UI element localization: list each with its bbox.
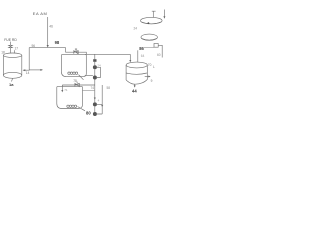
wire xyxy=(94,106,96,112)
leader T2 coil xyxy=(79,75,84,80)
node arrowhead stub xyxy=(40,69,43,71)
svg-text:FUE RD: FUE RD xyxy=(4,38,17,42)
dish D2 xyxy=(141,34,157,40)
svg-text:80: 80 xyxy=(86,111,91,116)
wire top feed vertical xyxy=(47,17,49,45)
node arrowhead into vessel T4 xyxy=(61,90,63,92)
svg-text:46: 46 xyxy=(49,24,53,28)
valve V3 xyxy=(75,82,79,87)
node arrowhead right outlet xyxy=(148,76,150,78)
pump chain vertical xyxy=(94,54,96,59)
pump P1 xyxy=(93,65,97,69)
svg-text:9: 9 xyxy=(151,79,153,83)
tank T1 left xyxy=(3,53,21,57)
wire riser from tank T1 xyxy=(23,48,29,71)
stem on D1 xyxy=(152,11,156,17)
bypass loop lower xyxy=(97,85,102,114)
wire T3 bottom outlet xyxy=(134,84,136,85)
wire xyxy=(94,62,96,66)
svg-text:78: 78 xyxy=(73,79,77,83)
svg-text:86: 86 xyxy=(139,46,144,51)
svg-text:71: 71 xyxy=(64,88,68,92)
wire stub arrow toward vessel T2 xyxy=(29,69,40,71)
node arrowhead into vessel T3 xyxy=(129,60,131,62)
vessel T2 center xyxy=(61,54,86,76)
svg-text:14: 14 xyxy=(26,71,30,75)
wire chain lower xyxy=(94,85,96,102)
component square S2 xyxy=(154,44,158,48)
wire inlet 2 into T3 xyxy=(137,50,139,62)
svg-text:58: 58 xyxy=(107,86,111,90)
vessel T4 bottom xyxy=(57,86,83,108)
node dot on D1 xyxy=(148,22,150,24)
label 16 under T1 xyxy=(12,78,13,81)
dish D1 top right xyxy=(141,17,163,24)
wire long horizontal to right vessel xyxy=(85,53,130,55)
bypass loop middle xyxy=(97,67,101,77)
node arrowhead on chain xyxy=(94,98,96,100)
wire T3 right outlet xyxy=(145,76,149,78)
valve V1 xyxy=(9,45,13,47)
svg-text:1a: 1a xyxy=(9,82,14,87)
coil in T2 xyxy=(68,72,70,74)
svg-text:96: 96 xyxy=(32,44,36,48)
wire main horizontal left xyxy=(29,47,65,49)
bottom of T3 xyxy=(126,80,147,85)
node arrowhead bottom outlet xyxy=(134,85,136,87)
wire chain continues down xyxy=(94,80,96,86)
wire S2 to vent xyxy=(158,45,162,57)
vessel T3 right xyxy=(126,62,147,68)
component square S1 xyxy=(93,59,96,62)
wire drop into bottom vessel xyxy=(61,85,63,91)
svg-text:EA AM: EA AM xyxy=(33,11,48,16)
svg-text:24: 24 xyxy=(97,63,101,67)
svg-text:17: 17 xyxy=(15,47,19,51)
wire M to S2 xyxy=(144,47,154,49)
wire vessel T4 to chain xyxy=(83,90,95,92)
pump P4 xyxy=(93,112,97,116)
pump P3 xyxy=(93,102,97,106)
wire step down segment xyxy=(66,48,87,55)
valve V2 xyxy=(74,49,78,54)
svg-text:44: 44 xyxy=(132,88,137,93)
svg-text:60: 60 xyxy=(157,53,161,57)
svg-text:70: 70 xyxy=(148,63,152,67)
wire valve to T1 xyxy=(9,48,11,54)
node arrowhead into tank T1 xyxy=(23,69,26,71)
wire stub second inlet xyxy=(14,50,16,53)
coil in T4 xyxy=(67,105,69,107)
node arrowhead discharge xyxy=(101,105,103,107)
svg-text:L: L xyxy=(153,65,155,69)
wire drop into right vessel xyxy=(129,54,131,60)
svg-text:18: 18 xyxy=(1,50,5,54)
wire bottom horizontal xyxy=(62,84,95,86)
pump P2 xyxy=(93,76,97,80)
svg-text:74: 74 xyxy=(91,86,95,90)
level line T3 xyxy=(126,73,147,74)
svg-text:98: 98 xyxy=(55,40,60,45)
leader T4 coil xyxy=(78,107,86,111)
arrow down right of D1 xyxy=(163,10,165,17)
svg-text:24: 24 xyxy=(134,27,138,31)
wire xyxy=(94,69,96,75)
svg-text:64: 64 xyxy=(141,54,145,58)
wire from vessel T2 bottom right xyxy=(85,75,93,77)
node junction arrow xyxy=(47,45,49,48)
wire feed into T1 xyxy=(9,42,11,46)
